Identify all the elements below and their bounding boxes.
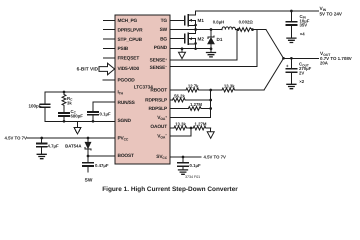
node CC-rail junction: [63, 120, 66, 123]
capacitor CC 680pF: [63, 107, 65, 121]
svg-text:RUN/SS: RUN/SS: [118, 100, 136, 106]
svg-text:×2: ×2: [299, 79, 305, 84]
svg-text:SENSE+: SENSE+: [150, 57, 168, 63]
node D1 anode junction: [210, 47, 213, 50]
wire PVCC supply: [27, 137, 115, 139]
node feedback junction mid: [209, 99, 212, 102]
svg-text:20A: 20A: [320, 60, 328, 65]
svg-text:13.3k: 13.3k: [175, 121, 186, 126]
resistor 56.2k: [173, 98, 188, 102]
wire FREQSET stub: [104, 57, 116, 59]
node BAT54A anode junction: [87, 137, 90, 140]
wire RUN/SS: [93, 102, 115, 112]
svg-text:6-BIT VID: 6-BIT VID: [77, 66, 99, 72]
wire feedback node vertical: [210, 90, 212, 118]
capacitor 0.47uF boost: [87, 156, 89, 172]
svg-text:SW: SW: [85, 177, 93, 183]
wire RBOOT row: [170, 89, 186, 91]
svg-text:0.1µF: 0.1µF: [190, 163, 201, 168]
transistor M1 top NMOS: [184, 16, 186, 24]
wire BG to M2 gate: [170, 38, 184, 40]
wire OAOUT row: [170, 127, 174, 129]
output section: [282, 51, 352, 89]
svg-text:OAOUT: OAOUT: [150, 124, 167, 130]
node CIN junction: [290, 10, 293, 13]
diode BAT54A: [85, 142, 91, 148]
svg-text:SW: SW: [160, 27, 168, 33]
svg-text:56.2k: 56.2k: [174, 93, 185, 98]
node VOUT junction: [282, 57, 285, 60]
wire VOA+ row: [170, 117, 211, 119]
node feedback junction top: [209, 89, 212, 92]
node 6-BIT VID bus arrow: [99, 63, 115, 75]
ground earth under SVCC cap: [179, 170, 188, 174]
wire 1.27M to ground: [210, 128, 212, 132]
wire VIN top rail: [196, 10, 319, 12]
svg-text:BOOST: BOOST: [118, 153, 135, 159]
wire RSENSE to VOUT diagonal: [266, 30, 284, 59]
wire DPRSLPVR stub: [104, 29, 116, 31]
wire 1.27M to node: [203, 108, 211, 110]
resistor 12.7k: [186, 88, 201, 92]
ground earth under COUT: [287, 84, 296, 88]
node SVCC junction: [182, 156, 185, 159]
svg-text:PSIB: PSIB: [118, 46, 129, 52]
node RSENSE right junction: [251, 28, 254, 31]
wire STP_CPUB stub: [104, 38, 116, 40]
node 0.1uF-rail junction: [92, 120, 95, 123]
svg-text:5V TO 24V: 5V TO 24V: [320, 11, 342, 16]
wire PGND triangle stub: [181, 49, 183, 53]
resistor 1.27M upper: [188, 107, 203, 111]
capacitor 4.7uF: [41, 138, 43, 154]
wire 13.3k to VOUT horizontal: [237, 89, 265, 91]
svg-text:BG: BG: [160, 36, 167, 42]
svg-text:BAT54A: BAT54A: [65, 144, 81, 149]
resistor 13.3k lower: [174, 126, 193, 130]
svg-text:FREQSET: FREQSET: [118, 56, 140, 62]
node feedback junction lower: [209, 107, 212, 110]
svg-text:RBOOT: RBOOT: [150, 88, 167, 94]
wire PGND / M2 source / D1 anode rail: [170, 48, 211, 50]
svg-text:PVCC: PVCC: [118, 136, 129, 142]
svg-text:0.47µF: 0.47µF: [95, 163, 109, 168]
resistor RSENSE 0.002ohm: [239, 28, 253, 32]
wire 12.7k to node: [201, 89, 223, 91]
svg-text:VID5-VID0: VID5-VID0: [118, 66, 140, 72]
svg-text:13.3k: 13.3k: [224, 83, 235, 88]
wire VOUT rail: [284, 57, 319, 59]
svg-text:4.5V TO 7V: 4.5V TO 7V: [5, 136, 28, 141]
svg-text:3734 F01: 3734 F01: [185, 175, 200, 179]
wire RSENSE to VOUT horizontal: [252, 29, 266, 31]
svg-text:12.7k: 12.7k: [188, 83, 199, 88]
resistor 13.3k upper: [222, 88, 237, 92]
svg-text:M2: M2: [198, 37, 205, 42]
resistor RC 3k: [62, 92, 66, 107]
ground signal-ground triangle PGND: [179, 52, 186, 58]
wire SGND rail: [45, 120, 115, 122]
svg-text:0.1µF: 0.1µF: [100, 111, 111, 116]
svg-text:0.002Ω: 0.002Ω: [239, 20, 254, 25]
wire SVCC: [170, 156, 201, 158]
capacitor CIN: [290, 11, 292, 38]
svg-text:D1: D1: [217, 37, 223, 42]
wire VOA- row: [170, 128, 191, 136]
capacitor COUT polarized: [290, 58, 292, 84]
inductor L1 0.8uH: [222, 27, 236, 30]
op-amp U1 LTC3734 IC body: [115, 15, 170, 164]
wire SENSE+: [170, 30, 237, 60]
capacitor 100pF: [44, 108, 46, 122]
svg-text:PGOOD: PGOOD: [118, 78, 136, 84]
diode D1 schottky: [208, 38, 215, 44]
resistor 1.27M lower: [193, 126, 211, 130]
svg-text:MCH_PG: MCH_PG: [118, 18, 138, 24]
ITH compensation network: [28, 91, 115, 134]
node 4.7uF junction: [40, 137, 43, 140]
input supply section: [286, 6, 342, 42]
node BOOST junction: [87, 155, 90, 158]
wire SENSE-: [170, 30, 257, 66]
svg-text:PGND: PGND: [154, 45, 168, 51]
svg-text:STP_CPUB: STP_CPUB: [118, 37, 143, 43]
svg-text:M1: M1: [198, 18, 205, 23]
ground earth under CIN: [287, 38, 296, 42]
wire 56.2k to node: [187, 99, 211, 101]
ground signal-ground triangle left: [74, 121, 81, 134]
wire SW rail: [170, 29, 222, 31]
svg-text:1.27M: 1.27M: [190, 102, 202, 107]
svg-text:680pF: 680pF: [71, 114, 84, 119]
node PGND ground tap junction: [181, 47, 184, 50]
node D1 cathode SW junction: [210, 28, 213, 31]
svg-text:35V: 35V: [300, 23, 308, 28]
SVCC section: [170, 155, 226, 179]
svg-text:SVCC: SVCC: [156, 154, 167, 160]
feedback resistor network: [170, 58, 284, 138]
wire RDPSLP row: [170, 108, 188, 110]
wire TG to M1 gate: [170, 19, 184, 21]
node COUT junction: [290, 57, 293, 60]
PVCC / BOOST network: [5, 136, 116, 184]
wire PSIB stub: [104, 48, 116, 50]
node RSENSE left junction: [237, 28, 240, 31]
node ITH junction: [63, 91, 66, 94]
svg-text:Figure 1. High Current Step-Do: Figure 1. High Current Step-Down Convert…: [102, 186, 238, 193]
svg-text:4.7µF: 4.7µF: [48, 144, 59, 149]
wire 13.3k to VOUT diagonal: [264, 58, 284, 90]
wire RDPRSLP row: [170, 99, 173, 101]
wire PGOOD stub: [103, 79, 115, 81]
svg-text:4.5V TO 7V: 4.5V TO 7V: [204, 155, 227, 160]
svg-text:ITH: ITH: [118, 90, 124, 96]
wire ITH to compensation network: [45, 92, 115, 104]
capacitor 0.1uF svcc: [182, 157, 184, 169]
svg-text:1.27M: 1.27M: [195, 121, 207, 126]
svg-text:2V: 2V: [299, 71, 304, 76]
power stage: [170, 11, 318, 67]
wire BOOST: [88, 155, 115, 157]
capacitor 0.1uF soft-start: [92, 115, 94, 121]
svg-text:RDPSLP: RDPSLP: [148, 106, 168, 112]
svg-text:×4: ×4: [300, 32, 306, 37]
ground earth under D1: [207, 53, 216, 57]
left pin stubs and VID arrow: [77, 20, 115, 80]
svg-text:SGND: SGND: [118, 118, 132, 124]
svg-text:SENSE−: SENSE−: [150, 65, 168, 71]
ground signal-ground triangle feedback: [207, 132, 214, 139]
wire MCH_PG stub: [104, 19, 116, 21]
svg-text:+: +: [286, 63, 289, 68]
transistor M2 bottom NMOS: [184, 35, 186, 43]
node M1 source SW junction: [194, 28, 197, 31]
wire L1 to RSENSE: [236, 29, 239, 31]
svg-text:TG: TG: [161, 18, 168, 24]
ground earth under 4.7uF: [37, 154, 46, 158]
svg-text:DPRSLPVR: DPRSLPVR: [118, 27, 144, 33]
svg-text:0.8µH: 0.8µH: [213, 20, 225, 25]
node OAOUT divider junction: [190, 127, 193, 130]
svg-text:RDPRSLP: RDPRSLP: [145, 98, 168, 104]
svg-text:3k: 3k: [67, 101, 72, 106]
svg-text:100pF: 100pF: [28, 103, 41, 108]
